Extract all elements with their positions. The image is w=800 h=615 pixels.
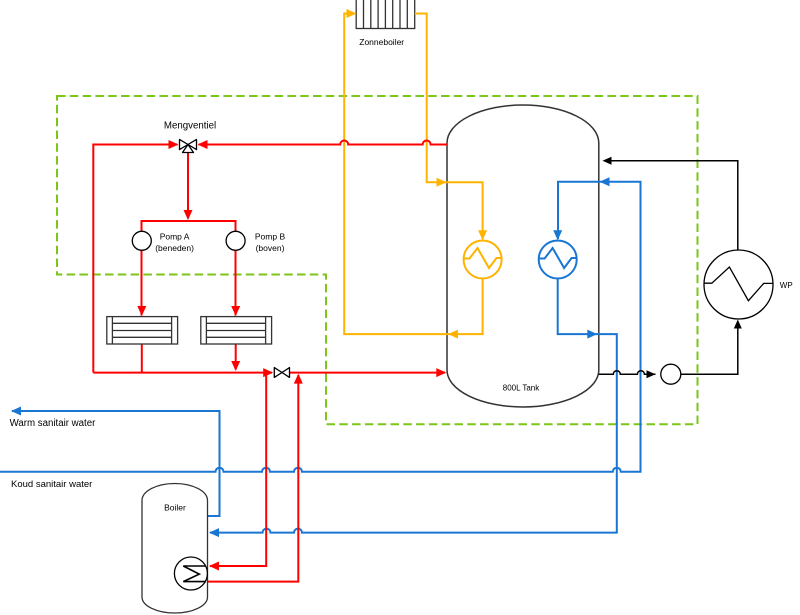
arrow into valve right	[198, 140, 208, 149]
arrow into tank bottom left	[436, 368, 446, 377]
pump B circle	[226, 231, 245, 250]
arrow into blue coil top	[553, 230, 562, 240]
red boiler feed	[210, 373, 266, 566]
svg-text:Koud sanitair water: Koud sanitair water	[11, 479, 92, 490]
svg-text:(beneden): (beneden)	[155, 243, 194, 253]
radiator 1	[107, 317, 178, 344]
arrow into coil top	[478, 230, 487, 240]
yellow pipe solar return (tank to collector)	[344, 14, 482, 335]
arrow out of tank wall (blue right)	[587, 330, 597, 339]
WP heat pump circle	[704, 250, 773, 319]
small pump circle	[661, 364, 681, 384]
radiator 2	[201, 317, 272, 344]
arrow out of tank wall	[448, 330, 458, 339]
red boiler return	[207, 375, 298, 582]
red valve to pump header	[187, 153, 189, 219]
arrow up into WP	[734, 320, 742, 329]
svg-text:WP: WP	[780, 281, 793, 290]
arrow into boiler coil	[209, 562, 219, 571]
red radiator 1 outlet	[141, 344, 143, 373]
arrow into valve left	[169, 140, 179, 149]
arrow up into return header	[294, 374, 303, 384]
red return header to valve2	[93, 372, 272, 374]
arrow into small pump	[647, 370, 656, 378]
arrow into radiator 1	[137, 306, 146, 316]
arrow into collector	[347, 9, 357, 18]
red radiator 2 outlet	[235, 344, 237, 370]
arrow into tank wall (blue)	[600, 177, 610, 186]
svg-text:Pomp A: Pomp A	[160, 232, 190, 242]
svg-text:Warm sanitair water: Warm sanitair water	[10, 418, 97, 429]
svg-text:Boiler: Boiler	[164, 503, 186, 513]
blue heat exchanger coil	[539, 241, 577, 279]
black pipe pump to WP	[681, 321, 738, 374]
red return to mengventiel left	[93, 145, 177, 373]
black pipe tank bottom to pump circle	[599, 371, 656, 375]
arrow into boiler (blue)	[209, 528, 219, 537]
svg-text:(boven): (boven)	[256, 243, 285, 253]
arrow into valve2	[263, 368, 273, 377]
svg-text:Pomp B: Pomp B	[255, 232, 286, 242]
green dashed system boundary	[57, 96, 698, 424]
yellow heat exchanger coil	[464, 241, 502, 279]
svg-text:800L Tank: 800L Tank	[503, 384, 540, 393]
arrow into tank right wall	[603, 157, 612, 165]
red pump header and drops	[142, 221, 236, 316]
boiler vessel	[142, 484, 208, 614]
arrow radiator 2 outlet down	[231, 361, 240, 371]
red valve2 to tank	[290, 372, 446, 374]
blue pipe tank to boiler	[210, 279, 617, 533]
mengventiel 3-way valve	[180, 139, 197, 152]
svg-text:Zonneboiler: Zonneboiler	[359, 37, 404, 47]
arrow into tank wall	[437, 178, 447, 187]
arrow warm water left	[11, 407, 21, 416]
black pipe WP to tank top	[604, 161, 738, 250]
blue warm sanitair water pipe	[12, 411, 220, 516]
arrow into radiator 2	[231, 306, 240, 316]
tank 800L	[447, 105, 599, 407]
pump A circle	[132, 231, 151, 250]
boiler coil sigma	[183, 566, 206, 582]
zonneboiler collector	[356, 0, 415, 29]
yellow pipe solar supply (collector to tank coil)	[415, 14, 483, 240]
svg-text:Mengventiel: Mengventiel	[164, 121, 216, 132]
arrow down to header	[184, 210, 193, 220]
valve2 (bowtie)	[274, 368, 289, 378]
blue cold water main (koud)	[0, 182, 641, 472]
red supply tank to mengventiel	[199, 141, 448, 145]
boiler coil circle	[174, 557, 207, 590]
